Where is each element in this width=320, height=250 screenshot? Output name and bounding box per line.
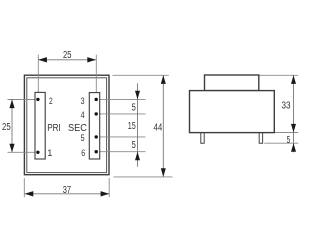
svg-text:37: 37 — [63, 185, 72, 196]
svg-text:4: 4 — [81, 110, 85, 120]
svg-text:44: 44 — [154, 122, 163, 133]
svg-text:SEC: SEC — [68, 123, 87, 134]
svg-text:2: 2 — [49, 96, 53, 106]
svg-text:33: 33 — [282, 100, 291, 111]
svg-text:1: 1 — [47, 148, 52, 158]
svg-text:5: 5 — [132, 102, 137, 113]
svg-text:25: 25 — [63, 50, 72, 61]
svg-text:PRI: PRI — [47, 123, 61, 134]
svg-text:3: 3 — [81, 96, 85, 106]
svg-text:5: 5 — [287, 135, 291, 146]
svg-text:25: 25 — [2, 122, 11, 133]
svg-text:15: 15 — [128, 121, 136, 132]
svg-text:5: 5 — [81, 133, 85, 143]
svg-text:6: 6 — [81, 148, 85, 158]
svg-text:5: 5 — [132, 140, 137, 151]
